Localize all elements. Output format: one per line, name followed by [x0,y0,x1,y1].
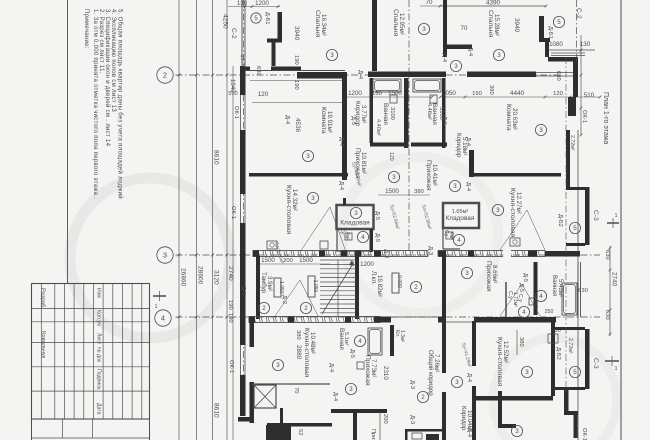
svg-text:26860: 26860 [180,268,187,287]
svg-text:Д-4: Д-4 [467,47,473,57]
svg-text:1200: 1200 [360,261,374,268]
svg-text:14.32м²: 14.32м² [291,189,298,211]
svg-text:2.72м²: 2.72м² [569,135,575,151]
svg-text:16.34м²: 16.34м² [320,14,327,36]
svg-text:190: 190 [293,55,299,65]
svg-text:4390: 4390 [486,0,501,7]
svg-text:Разраб.: Разраб. [40,288,46,309]
svg-text:Прихожая: Прихожая [425,160,432,191]
svg-text:Д-3: Д-3 [383,249,389,258]
svg-text:1500: 1500 [299,257,313,264]
svg-text:3: 3 [311,195,315,202]
svg-text:3: 3 [496,207,500,214]
svg-text:3: 3 [465,270,469,277]
svg-text:1500: 1500 [385,188,399,195]
svg-text:Д-4: Д-4 [466,373,472,383]
svg-text:Коридор: Коридор [455,133,462,158]
svg-text:5.42м²: 5.42м² [557,279,564,297]
svg-text:12.27м²: 12.27м² [515,192,522,214]
svg-text:1200: 1200 [348,90,362,97]
svg-text:120: 120 [258,91,269,98]
svg-text:Кухня-столовая: Кухня-столовая [509,188,516,238]
svg-text:3: 3 [455,379,459,386]
svg-text:ОК-1: ОК-1 [581,428,587,440]
svg-text:Д-4: Д-4 [284,115,290,125]
svg-text:630: 630 [604,250,610,260]
svg-text:3100: 3100 [389,107,395,120]
svg-text:4: 4 [522,309,526,316]
svg-text:2: 2 [304,305,308,312]
svg-text:380: 380 [295,330,301,340]
svg-text:1: 1 [154,304,157,310]
svg-text:1: 1 [614,366,617,372]
svg-text:4536: 4536 [294,118,301,133]
svg-text:7.73м²: 7.73м² [370,359,377,377]
svg-text:2880: 2880 [295,345,302,360]
svg-text:2: 2 [262,305,266,312]
svg-text:Д-4: Д-4 [338,137,344,147]
svg-text:С-2: С-2 [230,28,237,39]
svg-text:ОК-1: ОК-1 [581,110,587,123]
svg-text:4. Экспликацию полов см лист: 4. Экспликацию полов см лист 13 [110,9,116,112]
svg-text:3: 3 [306,153,310,160]
svg-text:5. Общая площадь квартир даны: 5. Общая площадь квартир даны без учета … [117,9,124,199]
svg-text:52: 52 [297,429,303,435]
svg-text:Д-5: Д-5 [518,283,524,292]
svg-text:Кухня-столовая: Кухня-столовая [496,337,503,387]
svg-text:Ковальчук: Ковальчук [40,331,46,359]
svg-text:Общий коридор: Общий коридор [427,350,434,396]
svg-text:8610: 8610 [213,150,220,165]
svg-text:Кладовая: Кладовая [340,220,370,227]
svg-text:5: 5 [573,225,577,232]
svg-text:Примечание:: Примечание: [83,9,89,49]
svg-text:380: 380 [518,337,524,347]
svg-text:Д-5: Д-5 [374,233,380,242]
svg-text:70: 70 [293,387,299,393]
svg-text:4: 4 [361,234,365,241]
svg-text:Д-5: Д-5 [349,349,355,358]
svg-text:70: 70 [426,0,433,6]
svg-text:3: 3 [163,251,167,260]
svg-text:2740: 2740 [611,272,618,287]
svg-text:Кухня-столовая: Кухня-столовая [285,185,292,235]
svg-text:10.41м²: 10.41м² [431,164,438,186]
svg-text:Прихожая: Прихожая [485,261,492,292]
svg-text:С-3: С-3 [592,210,599,221]
svg-text:Ванная: Ванная [382,103,389,125]
svg-text:-1.050: -1.050 [312,278,318,292]
svg-text:№ док: № док [96,347,102,363]
svg-text:1. За отм 0.000 принята отметк: 1. За отм 0.000 принята отметка чистого … [92,9,98,199]
svg-text:Подпись: Подпись [96,369,102,390]
svg-text:5: 5 [557,19,561,26]
svg-text:Д-Б2: Д-Б2 [557,214,563,227]
svg-text:1080: 1080 [549,41,563,48]
svg-text:Д-Б1: Д-Б1 [547,26,553,39]
svg-text:1500: 1500 [261,257,275,264]
svg-text:Д-Б1: Д-Б1 [264,12,270,24]
svg-text:3: 3 [392,174,396,181]
svg-text:Д-3: Д-3 [409,415,415,424]
svg-text:200: 200 [283,258,293,264]
svg-text:Д-4: Д-4 [328,363,334,373]
svg-text:510: 510 [584,92,595,99]
svg-text:Прихожая: Прихожая [370,429,376,440]
svg-text:4.46м²: 4.46м² [426,103,432,120]
svg-text:Прихожая: Прихожая [364,355,371,386]
svg-text:Д-4: Д-4 [357,70,363,80]
svg-text:Д-5: Д-5 [441,116,447,125]
svg-text:2. Разрез см лист 11.: 2. Разрез см лист 11. [98,9,104,74]
svg-text:Д-5: Д-5 [522,273,528,282]
svg-text:3: 3 [349,386,353,393]
svg-text:2: 2 [421,394,425,401]
svg-text:Лист: Лист [96,333,102,345]
svg-text:Кол.уч: Кол.уч [96,310,102,326]
svg-text:12.95м²: 12.95м² [398,13,405,35]
svg-text:Комната: Комната [505,104,512,131]
svg-text:3: 3 [525,369,529,376]
svg-text:-1.050: -1.050 [278,280,284,294]
svg-text:2: 2 [163,71,167,80]
svg-text:3.9м²: 3.9м² [266,276,273,291]
svg-text:План 1-го этажа: План 1-го этажа [602,92,609,144]
svg-text:С.у: С.у [517,294,523,302]
svg-text:3120: 3120 [213,270,220,285]
svg-text:Изм: Изм [96,288,102,298]
svg-text:3: 3 [276,362,280,369]
svg-text:630: 630 [604,310,610,320]
svg-text:4250: 4250 [222,14,229,29]
svg-text:130: 130 [580,41,591,48]
svg-text:4: 4 [457,237,461,244]
svg-text:70: 70 [461,25,468,32]
svg-text:8.66м²: 8.66м² [491,265,498,283]
svg-text:3: 3 [515,428,519,435]
svg-text:15.28м²: 15.28м² [493,14,500,36]
svg-text:Ванная: Ванная [551,275,558,296]
svg-text:Д-4: Д-4 [441,53,447,63]
svg-text:380: 380 [414,189,424,195]
svg-text:Д-5: Д-5 [374,211,380,220]
svg-text:2: 2 [414,284,418,291]
svg-text:2.72м²: 2.72м² [567,338,573,354]
svg-text:2310: 2310 [382,366,389,380]
svg-text:Д-1: Д-1 [240,286,246,295]
svg-text:19.82м²: 19.82м² [376,275,383,297]
svg-text:5.1м²: 5.1м² [343,332,349,346]
svg-text:19.91м²: 19.91м² [326,111,333,133]
svg-text:630: 630 [578,288,588,294]
svg-text:3: 3 [330,52,334,59]
svg-text:120: 120 [553,91,563,97]
svg-text:4: 4 [358,338,362,345]
svg-text:Кладовая: Кладовая [446,215,475,222]
svg-text:Коридор: Коридор [460,406,467,431]
svg-text:0.000: 0.000 [396,275,402,288]
svg-text:С-3: С-3 [592,358,599,369]
svg-text:Спальня: Спальня [487,10,494,38]
svg-text:Д-3: Д-3 [409,380,415,389]
svg-text:28600: 28600 [197,266,204,285]
svg-text:5: 5 [573,369,577,376]
svg-text:1: 1 [614,213,617,219]
svg-text:200: 200 [382,414,388,424]
svg-text:Д-4: Д-4 [332,392,338,402]
svg-text:3: 3 [422,26,426,33]
svg-text:3940: 3940 [293,26,300,41]
svg-text:Д-2: Д-2 [281,295,287,304]
svg-text:250: 250 [545,309,554,315]
svg-text:3: 3 [539,127,543,134]
svg-text:Кухня-столовая: Кухня-столовая [303,328,310,378]
svg-text:190: 190 [293,80,299,90]
svg-text:Дата: Дата [96,403,102,415]
svg-text:Л.кл.: Л.кл. [370,271,377,285]
svg-text:Спальня: Спальня [392,9,399,37]
svg-text:Д-5: Д-5 [350,116,356,125]
svg-text:Спальня: Спальня [314,10,321,38]
svg-text:Д-4: Д-4 [466,428,472,438]
svg-text:10.48м²: 10.48м² [309,332,316,354]
svg-text:Д-Б2: Д-Б2 [555,347,561,360]
svg-text:12.52м²: 12.52м² [502,341,509,363]
svg-text:10.81м²: 10.81м² [360,152,367,174]
svg-text:Тамбур: Тамбур [260,272,267,294]
svg-text:7.26м²: 7.26м² [433,354,440,372]
svg-text:Комната: Комната [320,107,327,134]
svg-text:Д-4: Д-4 [465,137,471,147]
svg-text:8610: 8610 [213,403,220,418]
svg-text:ОК-1: ОК-1 [233,106,239,119]
svg-text:380: 380 [488,85,494,95]
svg-text:4: 4 [539,293,543,300]
svg-text:Д-3: Д-3 [427,246,433,255]
svg-text:4440: 4440 [510,90,525,97]
svg-text:3: 3 [354,210,358,217]
svg-text:Д-4: Д-4 [338,181,344,191]
svg-text:4.40м²: 4.40м² [375,119,381,136]
svg-text:1200: 1200 [255,0,269,7]
svg-text:Д-4: Д-4 [465,182,471,192]
svg-text:4: 4 [161,314,165,323]
svg-text:С-2: С-2 [575,8,582,19]
svg-text:3940: 3940 [513,18,520,33]
svg-text:1.3м²: 1.3м² [399,330,405,342]
svg-text:1.4м²: 1.4м² [344,228,350,240]
svg-text:190: 190 [227,300,233,310]
svg-text:3: 3 [497,52,501,59]
svg-text:3. Спецификации окон и дверей: 3. Спецификации окон и дверей см . лист … [104,9,111,147]
svg-text:3: 3 [453,183,457,190]
svg-text:150: 150 [472,91,482,97]
svg-text:3.77м²: 3.77м² [360,105,367,123]
svg-text:3: 3 [454,63,458,70]
svg-text:20.63м²: 20.63м² [511,108,518,130]
svg-text:190: 190 [227,313,233,323]
svg-text:120: 120 [388,152,394,161]
